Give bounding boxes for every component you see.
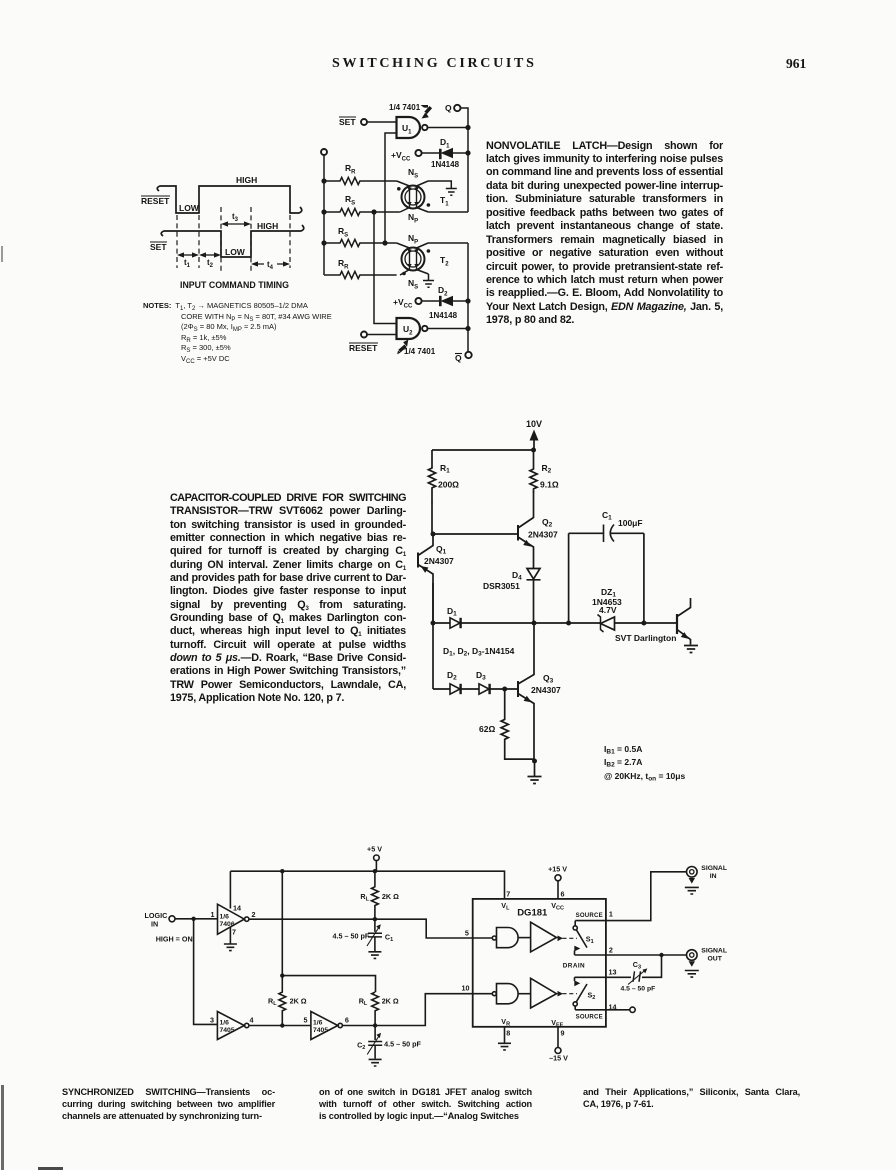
capacitor C1 plates [368,933,382,937]
svg-text:D1: D1 [440,137,450,150]
wire gate1 to buffer1 [518,937,531,939]
text block col 2 [319,1086,532,1122]
svg-text:DRAIN: DRAIN [563,963,585,970]
wire pin5 inside [473,937,493,939]
wire R1 to node [431,502,433,534]
resistor RL3 [372,992,379,1025]
wire T2 bottom right to ground [428,274,430,280]
svg-text:VEE: VEE [551,1018,563,1029]
arrowhead C3 [642,968,647,973]
svg-text:S1: S1 [586,935,594,946]
switch S1 contact arrow [574,946,580,952]
capacitor C3 plates [633,971,641,982]
switch S2 source stem [574,1006,576,1010]
scan artifact: binding edge streak bottom left [1,1085,4,1170]
svg-text:9: 9 [561,1029,565,1038]
wire T1 bottom right to rail [428,211,468,213]
node LOGIC IN open circle [169,916,175,922]
svg-text:1/6: 1/6 [313,1020,323,1027]
svg-text:4.5 – 50 pF: 4.5 – 50 pF [333,932,370,941]
svg-text:RL: RL [268,997,277,1008]
svg-text:Q3: Q3 [543,673,554,685]
svg-text:NP: NP [408,212,418,225]
buffer triangle ch1 [531,922,557,952]
wire +Vcc1 to D1 [422,152,440,154]
svg-text:IN: IN [151,920,158,929]
wire node to Q2 base [433,533,518,535]
node +Vcc2 open circle [415,298,421,304]
svg-text:–15 V: –15 V [549,1054,568,1063]
junction dot RL2 top [280,973,284,977]
node +Vcc1 open circle [415,150,421,156]
wire D2 to D3 [461,688,480,690]
ground C1 [368,952,381,959]
capacitor C1 arrow [367,926,380,947]
svg-text:SOURCE: SOURCE [576,912,603,919]
svg-text:SOURCE: SOURCE [576,1014,603,1021]
wire pin1 to signal in [606,872,687,921]
dashed timing line 2 [198,215,200,268]
svg-text:200Ω: 200Ω [438,480,459,490]
svg-text:4: 4 [250,1016,254,1025]
wire inverter2 to inverter3 [249,1025,311,1027]
svg-text:C3: C3 [633,960,641,971]
wire pin10 inside [473,993,493,995]
ground VR [498,1043,511,1050]
ground inverter1 [224,944,237,951]
dashed control ch2 [563,993,578,995]
svg-text:VCC: VCC [551,901,564,912]
svg-text:HIGH = ON: HIGH = ON [156,935,193,944]
switch S1 drain stem [574,951,576,956]
svg-text:D1, D2, D3-1N4154: D1, D2, D3-1N4154 [443,646,515,658]
junction dot U1 riser [382,240,387,245]
svg-text:U2: U2 [403,324,413,337]
svg-text:LOW: LOW [179,203,200,213]
connector SIGNAL OUT pin [689,961,695,967]
diode D1 triangle [441,148,454,158]
svg-text:4.7V: 4.7V [599,605,617,615]
wire C1 left [569,532,603,534]
diode D2 triangle [450,684,460,694]
zener DZ1 bar [598,615,604,633]
svg-text:1/4 7401: 1/4 7401 [389,103,421,112]
svg-text:OUT: OUT [708,956,723,963]
svg-text:1: 1 [211,910,215,919]
capacitor C2 plates [368,1042,382,1046]
wire top rail [230,871,504,899]
wire T2 top right to rail [428,242,468,244]
junction dot RL3 bottom [373,1023,377,1027]
svg-text:2N4307: 2N4307 [424,556,454,566]
ground SIGNAL IN [685,887,699,894]
svg-text:D4: D4 [512,570,522,582]
svg-text:13: 13 [609,968,617,977]
svg-text:6: 6 [345,1016,349,1025]
diode D4 body [527,569,541,580]
node Qbar open circle [465,352,471,358]
junction dot rail [531,448,536,453]
svg-text:7405: 7405 [220,1027,235,1034]
svg-text:SET: SET [150,242,167,252]
wire inverter1 output [249,919,473,938]
switch S1 source line [575,921,606,926]
resistor RL2 [279,976,286,1025]
transformer T2 inner core [405,251,421,267]
and gate ch2 [497,984,519,1004]
svg-text:+5 V: +5 V [367,845,382,854]
svg-text:IN: IN [710,873,717,880]
svg-text:C1: C1 [602,510,612,522]
svg-text:NS: NS [408,167,418,180]
node input rail open circle [321,149,327,155]
wire pin7 ground stem [229,927,231,944]
diode D2 bar [459,684,461,694]
dashed control ch1 [563,937,578,939]
junction dot rail RL2 [280,869,284,873]
svg-text:4.5 – 50 pF: 4.5 – 50 pF [621,986,656,993]
transistor Q3 base bar [517,681,519,697]
svg-text:10: 10 [462,984,470,993]
inverter 7405 no2 triangle [217,1012,244,1040]
svg-text:RESET: RESET [141,196,170,206]
svg-text:2N4307: 2N4307 [531,685,561,695]
IC DG181 box [473,899,606,1027]
arrowhead control ch1 [558,936,564,942]
capacitor C1 stem [374,919,376,932]
T2 winding chords [410,248,417,271]
junction dot rail RL1 [373,869,377,873]
arrow t3 [224,223,248,225]
junction dot emitter gnd [532,759,537,764]
scan artifact: small edge tick [1,246,3,262]
dashed timing line 1 [176,215,178,268]
wire DZ1 to darlington [615,622,678,624]
wire SET waveform [161,225,304,257]
svg-text:1N4148: 1N4148 [429,311,458,320]
dashed timing line 5 [289,215,291,268]
transformer T1 inner core [405,189,421,205]
resistor RR1 [324,177,397,184]
junction dots left rail [321,178,326,183]
nand U2 body [397,318,420,339]
wire +5V stem [375,861,377,872]
svg-text:1: 1 [609,910,613,919]
wire C1 right [611,532,644,534]
darlington base bar [676,614,678,634]
svg-text:t4: t4 [267,260,274,271]
wire C3 to signal out node [642,955,662,977]
inverter 7405 no3 triangle [311,1012,338,1040]
junction dot D3 Q3 [502,687,507,692]
wire Q1 emitter to D1 node [432,583,434,623]
overline RESET [141,195,170,197]
and gate ch2 input bubble [492,992,496,996]
wire 10V stem [533,438,535,450]
Q1 emitter arrow [421,566,429,573]
transistor Q2 collector [518,492,534,529]
capacitor C1 flat plate [603,525,605,543]
inverter no3 bubble [338,1023,342,1027]
text block: CAPACITOR-COUPLED DRIVE [170,492,406,706]
junction dot RL1 bottom [373,917,377,921]
transistor Q1 emitter [418,565,433,624]
diode D1 [439,149,442,159]
wire +Vcc2 to D2 [422,300,440,302]
arrow to U2 bubble [397,340,408,355]
transistor Q3 collector [518,623,534,684]
diode D1 triangle [450,618,460,628]
inverter 7406 no1 triangle [218,904,245,934]
arrowheads t3 [221,221,251,226]
arrow t2 [202,254,218,256]
wire SET to U1 [367,121,396,123]
resistor RS3 [324,239,397,246]
svg-text:2: 2 [252,910,256,919]
T1 winding chords [410,186,417,209]
ground T2 [423,281,434,288]
svg-text:2K Ω: 2K Ω [382,892,399,901]
svg-text:D2: D2 [438,285,448,298]
svg-text:HIGH: HIGH [257,221,278,231]
T2 winding arrows [407,250,418,269]
wire Q to rail top [461,108,468,212]
scan artifact: bottom dash [38,1167,63,1170]
svg-text:C2: C2 [357,1041,365,1052]
svg-text:3: 3 [210,1016,214,1025]
overline Qbar [455,353,462,355]
svg-text:t2: t2 [207,258,214,269]
wire cross to RL3 [282,976,375,993]
T2 polarity dot left [402,272,406,276]
wire logic vertical to inverter2 [194,919,218,1025]
ground T1 [446,189,457,196]
junction dot R1 node [431,532,436,537]
svg-text:+15 V: +15 V [548,864,567,873]
T1 winding arrows [407,188,418,207]
svg-text:7: 7 [232,928,236,937]
wire RL2 riser [281,871,283,975]
svg-text:14: 14 [609,1003,617,1012]
arrowhead C2 [376,1033,381,1038]
notes text block [143,301,353,365]
svg-text:NP: NP [408,233,418,246]
svg-text:10V: 10V [526,419,542,429]
svg-text:Q1: Q1 [436,544,447,556]
svg-text:+VCC: +VCC [393,297,413,310]
svg-text:DSR3051: DSR3051 [483,581,520,591]
wire pin9 stem [557,1027,559,1048]
wire pin2 line [575,954,606,956]
wire C1 left drop [568,533,570,623]
svg-text:RR: RR [345,163,356,176]
svg-text:+VCC: +VCC [391,150,411,163]
node RESET open circle [361,332,367,338]
resistor 62ohm [501,689,535,759]
svg-text:S2: S2 [588,991,596,1002]
wire pin14 line [575,1009,630,1011]
arrowhead C1 [376,924,381,929]
wire ground stem [534,761,536,776]
svg-text:NS: NS [408,278,418,291]
wire pin14 riser [229,871,231,908]
ground SIGNAL OUT [685,971,699,978]
buffer triangle ch2 [531,978,557,1008]
wire +15V stem [557,881,559,899]
T2 polarity dot right [427,249,431,253]
svg-text:62Ω: 62Ω [479,724,495,734]
svg-text:D3: D3 [476,670,486,682]
svg-text:@ 20KHz, ton = 10μs: @ 20KHz, ton = 10μs [604,771,685,783]
T2 entry diagonals [397,243,429,275]
transistor Q1 collector [418,534,433,556]
svg-text:VL: VL [501,901,510,912]
svg-text:2K Ω: 2K Ω [382,997,399,1006]
svg-text:SIGNAL: SIGNAL [701,947,727,954]
svg-text:RS: RS [338,226,348,239]
svg-text:RESET: RESET [349,343,378,353]
wire left rail [323,155,325,275]
overline SET [150,241,167,243]
svg-text:7405: 7405 [313,1027,328,1034]
wire pin8 ground stem [504,1027,506,1043]
darlington emitter [677,630,691,645]
svg-text:HIGH: HIGH [236,175,257,185]
svg-text:SIGNAL: SIGNAL [701,865,727,872]
svg-text:RR: RR [338,258,349,271]
arrow t4 [254,263,287,265]
dashed timing line 3 [220,207,222,272]
wire D2 to rail [453,300,468,302]
diode D1 bar [459,618,461,628]
wire inverter3 output to pin10 [342,994,472,1026]
svg-text:1N4148: 1N4148 [431,160,460,169]
transformer T1 outer core [402,186,425,209]
svg-text:C1: C1 [385,933,393,944]
transistor Q2 emitter [518,537,534,568]
overline RESET [349,342,378,344]
node +15V open circle [555,875,561,881]
arrowheads t1 [177,252,199,257]
svg-text:5: 5 [304,1016,308,1025]
connector SIGNAL IN pin [689,878,695,884]
svg-text:5: 5 [465,929,469,938]
junction dots D1 row [431,621,436,626]
text block col 3 [583,1086,800,1110]
svg-text:T1: T1 [440,195,449,208]
svg-text:U1: U1 [402,123,412,136]
svg-text:8: 8 [506,1029,510,1038]
svg-text:2: 2 [609,946,613,955]
transistor Q1 base bar [417,553,419,568]
wire D4 to node [533,581,535,624]
svg-text:Q: Q [445,103,452,113]
svg-text:INPUT COMMAND TIMING: INPUT COMMAND TIMING [180,280,289,290]
wire pin13 to C3 [606,976,631,978]
svg-text:Q2: Q2 [542,517,553,529]
svg-text:4.5 – 50 pF: 4.5 – 50 pF [384,1040,421,1049]
resistor RL1 [372,871,379,919]
wire D1 to center [461,622,601,624]
and gate ch1 input bubble [492,936,496,940]
ground C2 [369,1059,382,1066]
darlington collector [677,598,691,617]
ground main [528,777,542,784]
wire RESET waveform [157,186,302,213]
wire C1 right drop [643,533,645,623]
Q3 emitter arrow [524,696,532,703]
svg-text:D2: D2 [447,670,457,682]
nand U1 body [397,117,421,138]
svg-text:DG181: DG181 [517,908,548,919]
transistor Q2 base bar [517,525,519,541]
wire top rail [432,449,534,451]
arrow to U1 bubble [421,105,433,119]
resistor R2 [530,450,537,493]
diode D3 bar [488,684,490,694]
node SET open circle [361,119,367,125]
svg-text:R1: R1 [440,463,450,475]
junction dot signal out [659,953,663,957]
capacitor C2 arrow [367,1034,380,1055]
svg-text:2N4307: 2N4307 [528,530,558,540]
svg-text:2K Ω: 2K Ω [290,997,307,1006]
node +5V open circle [374,855,380,861]
and gate ch1 [497,928,519,948]
nand U2 bubble [422,326,427,331]
wire pin13 line [575,976,606,978]
arrowhead control ch2 [558,991,564,997]
svg-text:t3: t3 [232,212,239,223]
connector SIGNAL IN outer [687,867,698,878]
node pin14 open circle [630,1007,635,1012]
ground darlington [684,646,698,653]
switch S2 drain stem [574,977,576,981]
svg-text:IB1 = 0.5A: IB1 = 0.5A [604,744,642,756]
page number 961 [786,56,806,72]
wire U1 feedback input riser [385,133,396,243]
svg-text:R2: R2 [542,463,552,475]
nand U1 bubble [422,125,427,130]
wire T1 top right to ground [428,181,451,188]
junction dot logic in [191,917,195,921]
resistor RS2 [324,208,400,215]
capacitor C2 stem [374,1026,376,1041]
switch S2 contact arrow [574,980,580,986]
capacitor C1 ground stem [374,938,376,952]
svg-text:1/6: 1/6 [220,1020,230,1027]
inverter no1 bubble [245,917,249,921]
junction dot RS2 tap [371,209,376,214]
svg-text:7: 7 [506,889,510,898]
wire rail T2 to Qbar [467,243,469,352]
switch S2 arm [576,984,587,1002]
T1 polarity dot right [427,203,431,207]
svg-text:RL: RL [360,892,369,903]
arrowheads t2 [199,252,221,257]
wire logic in [175,918,218,920]
diode D3 triangle [479,684,489,694]
svg-text:IB2 = 2.7A: IB2 = 2.7A [604,757,642,769]
svg-text:1/4 7401: 1/4 7401 [404,347,436,356]
wire U2 output to rail [428,328,469,330]
T1 polarity dot left [397,187,401,191]
svg-text:T2: T2 [440,255,449,268]
page header title [332,56,537,72]
Q2 emitter arrow [523,540,531,547]
resistor RR4 [324,271,397,278]
svg-text:LOW: LOW [225,247,246,257]
